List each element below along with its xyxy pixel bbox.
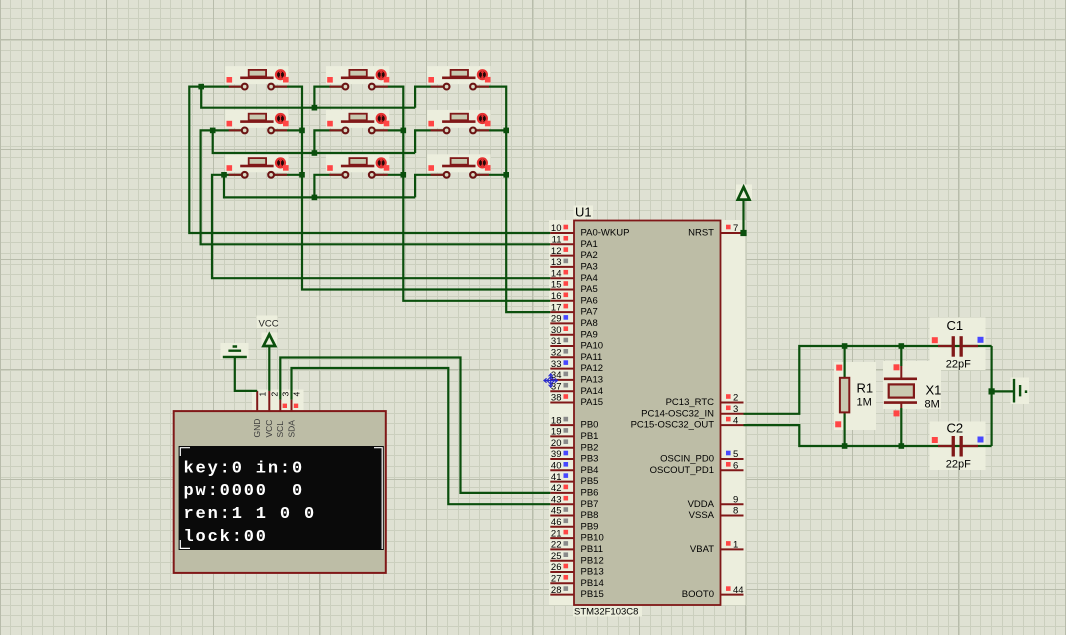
pin 20 PB2 <box>550 438 598 453</box>
svg-text:PB0: PB0 <box>581 420 599 431</box>
svg-text:PC14-OSC32_IN: PC14-OSC32_IN <box>641 408 714 419</box>
junction row1 <box>198 84 204 90</box>
pin 7 NRST <box>688 223 743 238</box>
wire row2 btn3 right <box>473 129 506 131</box>
svg-text:22pF: 22pF <box>946 459 971 471</box>
svg-text:VCC: VCC <box>259 319 279 330</box>
pin 21 PB10 <box>550 528 603 543</box>
wire X1 top <box>900 346 902 366</box>
wire R1 bottom <box>843 412 845 446</box>
svg-text:OSCIN_PD0: OSCIN_PD0 <box>660 454 714 465</box>
svg-text:26: 26 <box>551 562 562 573</box>
svg-text:PB9: PB9 <box>581 521 599 532</box>
pin 17 PA7 <box>550 302 597 317</box>
push button SW-R3C1 <box>227 157 289 177</box>
LCD pin 4 SDA <box>286 392 301 438</box>
LCD screen <box>179 446 384 550</box>
junction row2 link b2 <box>312 150 318 156</box>
junction row3 <box>221 172 227 178</box>
LCD pin 1 GND <box>252 391 267 438</box>
svg-text:PA14: PA14 <box>581 386 604 397</box>
pin 4 PC15-OSC32_OUT <box>631 415 744 430</box>
svg-text:PB2: PB2 <box>581 442 599 453</box>
svg-text:VDDA: VDDA <box>688 499 715 510</box>
junction R1 bottom rail <box>842 443 848 449</box>
ground symbol right <box>1014 379 1026 403</box>
wire row2 btn2 left <box>314 130 345 153</box>
push button SW-R2C1 <box>227 113 289 133</box>
svg-text:1: 1 <box>257 392 267 397</box>
junction row3 link b2 <box>312 195 318 201</box>
svg-text:41: 41 <box>551 472 562 483</box>
svg-text:PB10: PB10 <box>581 533 604 544</box>
power symbol VCC arrow at LCD <box>263 334 275 346</box>
pin 27 PB14 <box>550 574 603 589</box>
pin 14 PA4 <box>550 268 597 283</box>
svg-text:R1: R1 <box>857 381 874 396</box>
wire row3 btn2 left <box>314 175 345 198</box>
svg-text:PB14: PB14 <box>581 578 604 589</box>
wire row1 link <box>201 87 415 108</box>
svg-text:PA4: PA4 <box>581 273 598 284</box>
ground symbol at LCD <box>223 347 247 358</box>
svg-text:20: 20 <box>551 438 562 449</box>
pin 2 PC13_RTC <box>666 393 744 408</box>
capacitor C2 <box>932 436 984 457</box>
svg-text:PA2: PA2 <box>581 250 598 261</box>
LCD pin 2 VCC <box>264 391 279 438</box>
svg-text:key:0 in:0: key:0 in:0 <box>184 459 305 478</box>
junction X1 top rail <box>899 343 905 349</box>
pin 32 PA11 <box>550 348 602 363</box>
svg-text:6: 6 <box>733 461 738 472</box>
wire PC15 to bottom rail <box>744 425 992 446</box>
pin 11 PA1 <box>550 235 597 250</box>
svg-text:42: 42 <box>551 483 562 494</box>
pin 33 PA12 <box>550 359 603 374</box>
pin 43 PB7 <box>550 494 598 509</box>
pin 19 PB1 <box>550 427 598 442</box>
wire LCD GND <box>235 357 257 391</box>
svg-text:PB4: PB4 <box>581 465 599 476</box>
svg-text:U1: U1 <box>575 205 592 220</box>
svg-text:29: 29 <box>551 314 562 325</box>
svg-text:PA7: PA7 <box>581 307 598 318</box>
svg-text:30: 30 <box>551 325 562 336</box>
svg-text:SCL: SCL <box>275 421 285 438</box>
wire row3 link <box>224 175 415 198</box>
svg-text:40: 40 <box>551 461 562 472</box>
pin 12 PA2 <box>550 246 597 261</box>
push button SW-R2C2 <box>327 113 389 133</box>
wire PC14 to top rail <box>744 346 992 414</box>
pin 13 PA3 <box>550 257 597 272</box>
svg-text:PB15: PB15 <box>581 589 604 600</box>
svg-text:PB7: PB7 <box>581 499 599 510</box>
junction col3 row2 <box>503 128 509 134</box>
svg-text:PB11: PB11 <box>581 544 604 555</box>
wire row2 btn2 right <box>372 129 404 131</box>
svg-text:2: 2 <box>270 392 280 397</box>
pin 9 VDDA <box>688 494 744 509</box>
pin 34 PA13 <box>550 370 603 385</box>
svg-text:PA0-WKUP: PA0-WKUP <box>581 228 630 239</box>
svg-text:22: 22 <box>551 540 562 551</box>
svg-text:38: 38 <box>551 393 562 404</box>
pin 1 VBAT <box>690 540 744 555</box>
svg-text:19: 19 <box>551 427 562 438</box>
svg-text:PA13: PA13 <box>581 375 604 386</box>
svg-text:5: 5 <box>733 449 738 460</box>
cursor crosshair icon <box>544 374 557 387</box>
pin 40 PB4 <box>550 461 598 476</box>
svg-text:PB6: PB6 <box>581 488 599 499</box>
junction row1 link b2 <box>312 105 318 111</box>
junction right rail mid <box>989 388 995 394</box>
svg-text:25: 25 <box>551 551 562 562</box>
pin 15 PA5 <box>550 280 597 295</box>
svg-text:PA12: PA12 <box>581 363 604 374</box>
wire keypad row2 to PA1 <box>201 130 551 244</box>
svg-text:3: 3 <box>733 404 738 415</box>
pin 22 PB11 <box>550 540 603 555</box>
junction col2 row2 <box>401 128 407 134</box>
svg-text:PB5: PB5 <box>581 476 599 487</box>
svg-text:14: 14 <box>551 268 562 279</box>
svg-text:VCC: VCC <box>264 420 274 438</box>
wire row3 btn3 left <box>415 175 447 198</box>
svg-text:PA11: PA11 <box>581 352 603 363</box>
svg-text:SDA: SDA <box>286 420 296 438</box>
svg-text:C2: C2 <box>947 421 964 436</box>
LCD pin 3 SCL <box>275 392 290 438</box>
svg-text:PC13_RTC: PC13_RTC <box>666 397 715 408</box>
pin 37 PA14 <box>550 381 603 396</box>
svg-text:3: 3 <box>281 392 291 397</box>
pin 6 OSCOUT_PD1 <box>650 461 744 476</box>
pin 42 PB6 <box>550 483 598 498</box>
pin 18 PB0 <box>550 415 598 430</box>
svg-text:32: 32 <box>551 348 562 359</box>
svg-text:X1: X1 <box>926 383 942 398</box>
LCD screen corner marks <box>180 448 382 549</box>
svg-text:PB12: PB12 <box>581 555 604 566</box>
component background boxes <box>549 220 574 605</box>
pin 39 PB3 <box>550 449 598 464</box>
svg-text:PA5: PA5 <box>581 284 598 295</box>
LCD module body <box>174 411 386 573</box>
pin 30 PA9 <box>550 325 597 340</box>
pin 28 PB15 <box>550 585 603 600</box>
junction col1 row2 <box>299 128 305 134</box>
pin 31 PA10 <box>550 336 603 351</box>
wire row2 btn1 right <box>271 129 302 131</box>
pin 5 OSCIN_PD0 <box>660 449 743 464</box>
svg-text:PB3: PB3 <box>581 454 599 465</box>
svg-text:17: 17 <box>551 302 562 313</box>
svg-text:22pF: 22pF <box>946 359 971 371</box>
wire SCL to PB6 <box>280 358 550 493</box>
pin 41 PB5 <box>550 472 598 487</box>
wire NRST to power <box>742 200 744 233</box>
svg-text:4: 4 <box>292 392 302 397</box>
svg-text:44: 44 <box>733 585 744 596</box>
svg-text:15: 15 <box>551 280 562 291</box>
push button SW-R3C2 <box>327 157 389 177</box>
wire row3 btn3 right <box>473 174 506 176</box>
push button SW-R3C3 <box>428 157 490 177</box>
svg-text:1M: 1M <box>857 397 872 409</box>
svg-text:ren:1 1 0 0: ren:1 1 0 0 <box>184 505 317 524</box>
svg-text:31: 31 <box>551 336 562 347</box>
svg-text:18: 18 <box>551 415 562 426</box>
junction NRST <box>740 230 746 236</box>
svg-text:pw:0000 0: pw:0000 0 <box>184 482 305 501</box>
push button SW-R1C2 <box>327 69 389 89</box>
wire row3 btn1 right <box>271 174 302 176</box>
svg-text:9: 9 <box>733 494 738 505</box>
svg-text:PC15-OSC32_OUT: PC15-OSC32_OUT <box>631 420 715 431</box>
svg-text:PA3: PA3 <box>581 262 598 273</box>
wire row1 btn3 left <box>415 87 447 108</box>
op-amp substitute: MCU U1 STM32F103C8 body <box>574 221 721 606</box>
svg-text:PB13: PB13 <box>581 567 604 578</box>
svg-text:2: 2 <box>733 393 738 404</box>
svg-text:43: 43 <box>551 494 562 505</box>
svg-text:OSCOUT_PD1: OSCOUT_PD1 <box>650 465 714 476</box>
junction X1 bottom rail <box>899 443 905 449</box>
pin 16 PA6 <box>550 291 597 306</box>
capacitor C1 <box>932 336 984 357</box>
pin 8 VSSA <box>689 506 744 521</box>
svg-text:STM32F103C8: STM32F103C8 <box>574 607 638 618</box>
wire keypad row1 to PA0 <box>189 87 550 233</box>
wire column2 to PA6 <box>372 87 551 301</box>
svg-text:28: 28 <box>551 585 562 596</box>
svg-text:PA15: PA15 <box>581 397 604 408</box>
svg-text:PB1: PB1 <box>581 431 599 442</box>
pin 38 PA15 <box>550 393 603 408</box>
svg-text:16: 16 <box>551 291 562 302</box>
wire row2 link <box>213 130 415 153</box>
svg-text:lock:00: lock:00 <box>184 528 268 547</box>
svg-text:11: 11 <box>552 235 562 246</box>
resistor R1 <box>835 365 849 428</box>
svg-text:NRST: NRST <box>688 228 714 239</box>
wire row3 btn2 right <box>372 174 404 176</box>
pin 26 PB13 <box>550 562 603 577</box>
svg-text:21: 21 <box>551 528 562 539</box>
svg-text:C1: C1 <box>947 318 964 333</box>
wire X1 bottom <box>900 408 902 446</box>
svg-text:PA1: PA1 <box>581 239 598 250</box>
push button SW-R1C1 <box>227 69 289 89</box>
power symbol (VCC arrow) at NRST <box>738 187 750 200</box>
wire R1 top <box>843 346 845 378</box>
junction col1 row3 <box>299 172 305 178</box>
svg-text:7: 7 <box>733 223 738 234</box>
svg-text:39: 39 <box>551 449 562 460</box>
pin 10 PA0-WKUP <box>550 223 629 238</box>
svg-text:PA6: PA6 <box>581 295 598 306</box>
crystal X1 <box>884 364 917 416</box>
wire keypad row3 to PA4 <box>212 175 550 278</box>
svg-text:8M: 8M <box>925 399 940 411</box>
svg-text:45: 45 <box>551 506 562 517</box>
junction col3 row3 <box>503 172 509 178</box>
pin 45 PB8 <box>550 506 598 521</box>
svg-text:VSSA: VSSA <box>689 510 715 521</box>
svg-text:PA9: PA9 <box>581 329 598 340</box>
svg-text:46: 46 <box>551 517 562 528</box>
wire column3 to PA7 <box>473 87 550 313</box>
svg-text:27: 27 <box>551 574 562 585</box>
wire row1 btn2 left <box>314 87 345 108</box>
svg-text:13: 13 <box>551 257 562 268</box>
junction row2 <box>210 128 216 134</box>
pin 25 PB12 <box>550 551 603 566</box>
svg-text:33: 33 <box>551 359 562 370</box>
wire to ground <box>992 390 1013 392</box>
svg-text:PB8: PB8 <box>581 510 599 521</box>
push button SW-R1C3 <box>428 69 490 89</box>
pin 3 PC14-OSC32_IN <box>641 404 743 419</box>
junction col2 row3 <box>401 172 407 178</box>
wire right rail <box>990 346 992 446</box>
svg-text:4: 4 <box>733 415 738 426</box>
svg-text:1: 1 <box>733 540 738 551</box>
svg-text:PA8: PA8 <box>581 318 598 329</box>
wire LCD VCC <box>268 345 270 391</box>
svg-text:8: 8 <box>733 506 738 517</box>
svg-text:GND: GND <box>252 419 262 438</box>
wire SDA to PB7 <box>292 368 551 504</box>
wire column1 to PA5 <box>271 87 550 290</box>
svg-text:VBAT: VBAT <box>690 544 714 555</box>
junction R1 top rail <box>842 343 848 349</box>
svg-text:BOOT0: BOOT0 <box>682 589 714 600</box>
push button SW-R2C3 <box>428 113 490 133</box>
pin 44 BOOT0 <box>682 585 744 600</box>
svg-text:PA10: PA10 <box>581 341 604 352</box>
svg-text:12: 12 <box>551 246 562 257</box>
svg-text:10: 10 <box>551 223 562 234</box>
wire row2 btn3 left <box>415 130 447 153</box>
pin 46 PB9 <box>550 517 598 532</box>
pin 29 PA8 <box>550 314 597 329</box>
